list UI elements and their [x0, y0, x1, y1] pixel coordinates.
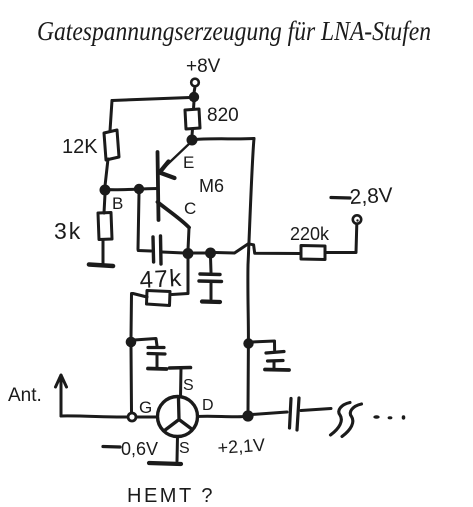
antenna arrow: [60, 376, 63, 416]
svg-text:+2,1V: +2,1V: [217, 435, 266, 458]
transistor M6 base bar: [158, 152, 159, 220]
wire 12K to node B: [105, 159, 108, 186]
capacitor (left bypass) bottom plate: [148, 352, 165, 356]
wire base node down to feedback cap: [138, 193, 151, 251]
node E2 (gate bias node): [126, 337, 137, 348]
HEMT body (circle): [158, 397, 198, 437]
wire node B to 3K: [104, 194, 105, 213]
node B (junction): [100, 185, 111, 196]
node D2 (bias node): [205, 248, 216, 259]
capacitor (mid decoupling) lead down: [210, 282, 213, 299]
terminal +8V (open circle): [191, 79, 199, 87]
ground (bar under 3K): [89, 265, 113, 267]
wire HEMT drain to drain node: [198, 415, 245, 419]
svg-text:820: 820: [207, 105, 239, 126]
wire 220K to right terminal riser: [325, 224, 357, 253]
resistor R 220K: [301, 246, 325, 260]
resistor R 47K: [147, 291, 171, 306]
svg-text:S: S: [179, 440, 190, 457]
svg-text:2,8V: 2,8V: [349, 184, 393, 209]
svg-text:Ant.: Ant.: [8, 385, 42, 406]
wire collector down to node C: [188, 228, 189, 250]
wire cap to node C1: [162, 252, 184, 253]
source top lead: [179, 368, 183, 397]
wire node A to top-left corner: [112, 98, 190, 101]
label -2,8V minus stroke: [331, 196, 350, 200]
capacitor (right bypass) lead down: [273, 362, 276, 369]
wire node D2 to 220K (with hop over vertical wire): [215, 244, 301, 254]
gate node (open circle): [128, 413, 136, 421]
capacitor (series output) left plate: [290, 399, 292, 429]
output squiggle SS: [331, 403, 351, 436]
svg-text:D: D: [202, 397, 214, 414]
wire emitter node to top right corner: [196, 139, 254, 140]
resistor R 3K: [98, 213, 112, 240]
capacitor (feedback, right plate): [159, 236, 163, 264]
wire node E2 down to gate: [130, 346, 134, 412]
HEMT internals (Y): [165, 399, 192, 431]
node A (junction below +8V): [189, 92, 199, 102]
wire node D2 down to mid cap: [209, 257, 213, 272]
capacitor (right bypass) bottom plate: [268, 359, 284, 363]
capacitor (mid decoupling) bottom bar: [202, 299, 220, 304]
svg-text:3k: 3k: [54, 218, 82, 244]
wire 3K to ground: [102, 240, 105, 264]
transistor M6 emitter arrowhead: [160, 162, 175, 179]
wire right node to right bypass cap: [251, 341, 275, 350]
transistor M6 emitter wire: [161, 142, 191, 171]
capacitor (left bypass) lead down: [156, 355, 159, 368]
capacitor (mid decoupling) top plate: [200, 272, 220, 276]
svg-text:220k: 220k: [290, 224, 330, 244]
node F (drain bypass tap): [243, 338, 253, 348]
output dots ...: [373, 415, 379, 419]
wire corner down to 12K: [110, 101, 112, 132]
wire terminal to node A: [194, 87, 195, 94]
svg-text:B: B: [112, 194, 123, 213]
svg-text:Gatespannungserzeugung für LNA: Gatespannungserzeugung für LNA-Stufen: [37, 16, 431, 46]
node C (collector node): [183, 248, 194, 259]
svg-text:HEMT ?: HEMT ?: [127, 485, 215, 507]
node (base feedback junction): [134, 184, 144, 194]
svg-text:E: E: [183, 153, 194, 172]
wire 820 to node below: [191, 129, 195, 136]
wire node E2 to left bypass cap: [134, 339, 157, 347]
terminal -2,8V (open circle): [353, 215, 361, 223]
svg-text:C: C: [184, 199, 196, 218]
wire gate circle to HEMT: [136, 416, 158, 419]
capacitor (right bypass) bottom bar: [265, 368, 289, 372]
svg-text:M6: M6: [199, 176, 224, 196]
svg-text:S: S: [183, 377, 194, 394]
wire antenna to gate: [61, 416, 128, 417]
wire drain node to series cap: [252, 412, 287, 415]
wire node B to base bar: [105, 189, 158, 190]
svg-text:G: G: [139, 398, 152, 417]
source bottom lead: [176, 437, 180, 462]
resistor R 12K: [104, 130, 119, 160]
capacitor (left bypass) bottom bar: [148, 367, 167, 371]
wire 47K left to lower-left node: [131, 294, 147, 339]
label -0,6V minus stroke: [103, 445, 120, 449]
wire series cap to output: [301, 409, 331, 411]
capacitor (feedback, left plate): [151, 237, 155, 262]
drain node: [242, 410, 253, 421]
capacitor (series output) right plate: [297, 398, 299, 430]
resistor R 820: [185, 109, 200, 129]
source bottom bar: [149, 463, 181, 464]
svg-text:12K: 12K: [62, 136, 98, 158]
transistor M6 collector wire: [158, 202, 190, 228]
svg-text:47k: 47k: [139, 265, 184, 294]
capacitor (mid decoupling) bottom plate: [199, 279, 222, 283]
svg-text:+8V: +8V: [186, 56, 221, 77]
wire node C to node D2: [188, 252, 210, 255]
capacitor (right bypass) top plate: [266, 352, 284, 354]
wire node A to 820: [192, 101, 196, 109]
source top bar: [170, 366, 191, 370]
node below 820 (emitter node): [187, 135, 198, 146]
wire right side vertical (down to drain): [248, 139, 254, 413]
svg-text:0,6V: 0,6V: [121, 439, 158, 459]
capacitor (left bypass) top plate: [148, 346, 164, 349]
wire node C down-left to 47K right side: [172, 257, 188, 295]
